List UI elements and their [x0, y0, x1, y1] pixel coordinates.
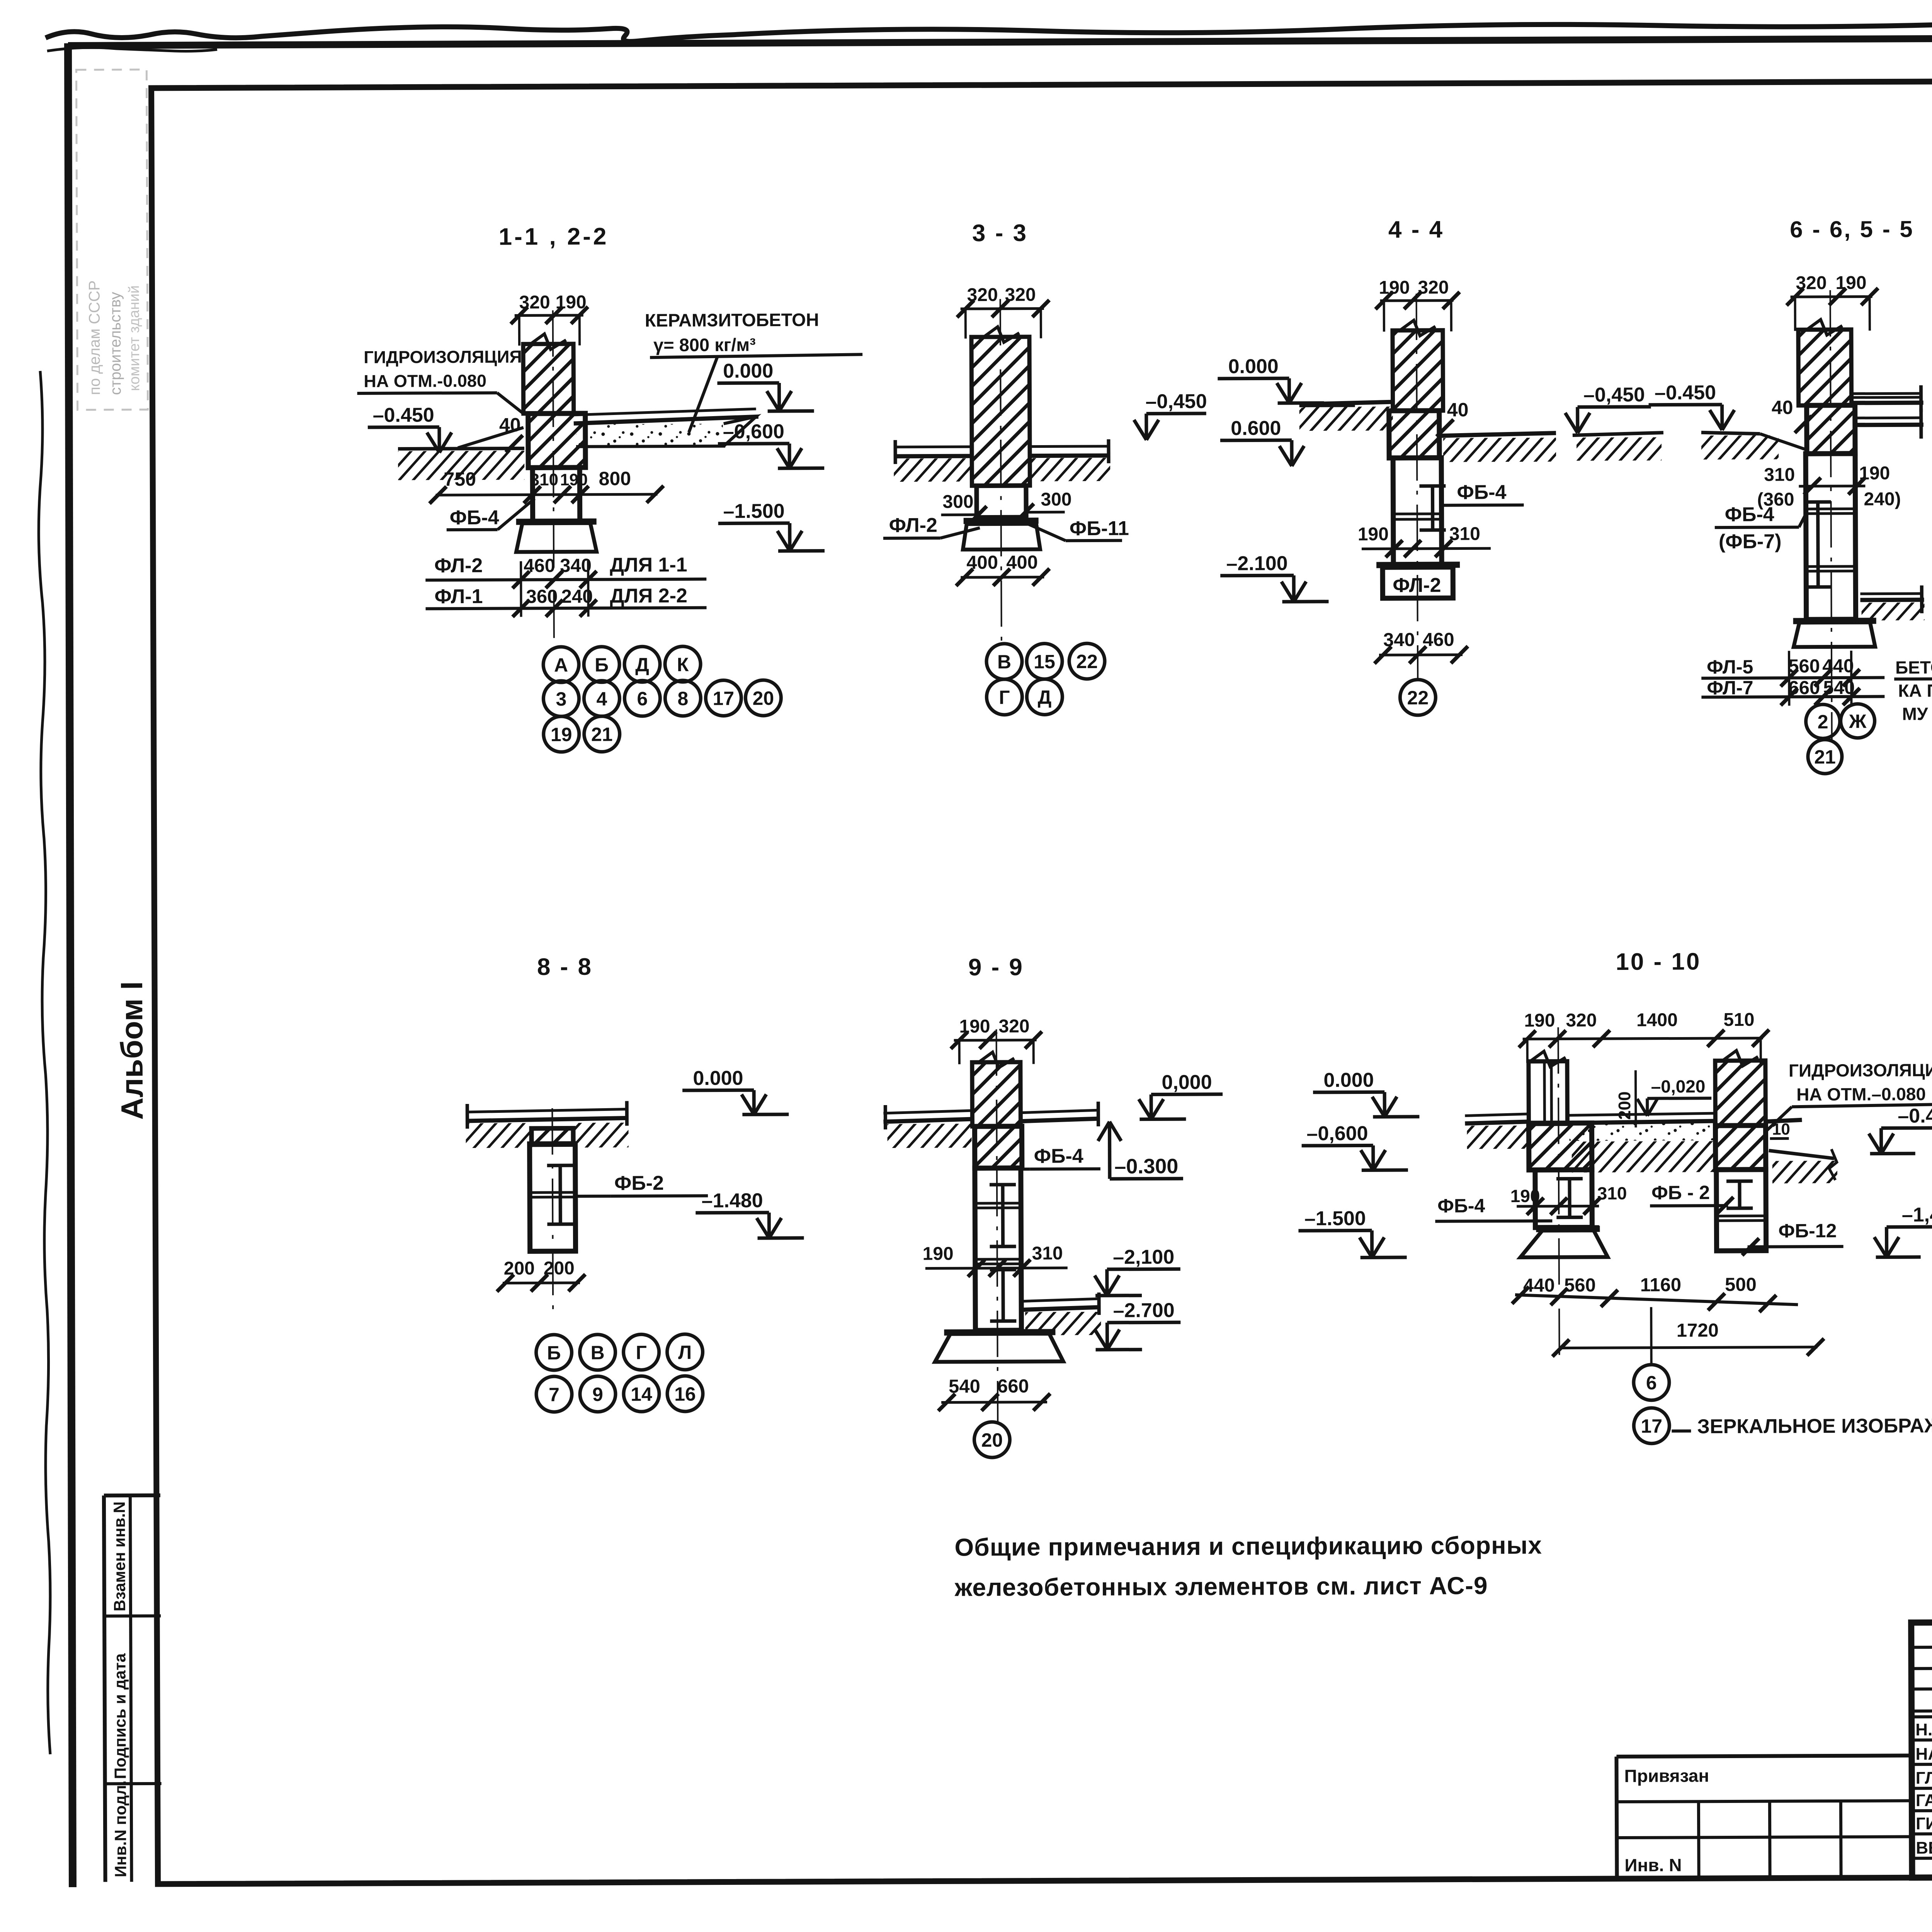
svg-text:по делам СССР: по делам СССР: [86, 281, 103, 395]
svg-text:–0.450: –0.450: [1898, 1105, 1932, 1128]
svg-text:9: 9: [592, 1384, 603, 1405]
svg-text:ФЛ-5: ФЛ-5: [1707, 656, 1753, 678]
lower floor slab right: [1021, 1299, 1100, 1301]
svg-text:0.000: 0.000: [1323, 1069, 1374, 1091]
FL-2 block: [1383, 567, 1453, 599]
faint approval stamp top-left: [76, 70, 148, 410]
svg-text:–0,020: –0,020: [1651, 1076, 1706, 1097]
svg-text:510: 510: [1723, 1010, 1754, 1030]
svg-text:–0,600: –0,600: [1306, 1122, 1368, 1145]
svg-text:440: 440: [1523, 1275, 1555, 1296]
svg-text:ФБ-4: ФБ-4: [1725, 503, 1774, 526]
svg-text:19: 19: [551, 724, 572, 745]
svg-text:0.000: 0.000: [1228, 355, 1279, 378]
basement floor right -2.100: [1860, 592, 1922, 595]
foundation cap hatched: [528, 413, 586, 468]
svg-text:190: 190: [560, 471, 588, 489]
svg-text:4: 4: [596, 688, 607, 710]
svg-text:190: 190: [1379, 277, 1410, 298]
ground left: [1701, 432, 1760, 434]
svg-text:660: 660: [997, 1376, 1029, 1397]
floor slabs both sides: [883, 1111, 972, 1113]
svg-text:ФБ-4: ФБ-4: [1457, 481, 1506, 503]
svg-text:1160: 1160: [1640, 1274, 1682, 1295]
svg-text:3: 3: [556, 688, 566, 710]
svg-text:8: 8: [677, 688, 688, 709]
svg-text:22: 22: [1407, 687, 1429, 709]
block under wall: [976, 486, 1026, 517]
privyazan box: [1616, 1755, 1912, 1757]
svg-text:0.000: 0.000: [723, 360, 773, 382]
section 1-1,2-2: [357, 222, 864, 753]
svg-text:–0.450: –0.450: [1655, 381, 1716, 404]
axis circle 20: [745, 680, 781, 716]
svg-text:21: 21: [591, 724, 613, 745]
section 6-6,5-5: [1700, 215, 1932, 774]
floor slab right + ground lower: [1441, 433, 1556, 436]
svg-text:НА ОТМ.-0.080: НА ОТМ.-0.080: [364, 371, 486, 391]
axis circle 17 + mirror note: [1634, 1408, 1669, 1444]
axis circle А: [543, 647, 579, 682]
svg-text:ФЛ-2: ФЛ-2: [889, 514, 937, 536]
section 3-3: [882, 219, 1356, 715]
floor slab center: [1567, 1113, 1715, 1115]
floor slab far left: [1465, 1114, 1529, 1116]
svg-text:14: 14: [631, 1383, 652, 1405]
axis circle Б: [536, 1335, 571, 1370]
svg-text:6: 6: [1646, 1372, 1657, 1394]
section 10-10: [1298, 947, 1932, 1445]
svg-text:320: 320: [998, 1016, 1029, 1037]
axis circle 6: [624, 680, 660, 716]
svg-text:железобетонных элементов см.: железобетонных элементов см. лист АС-9: [954, 1571, 1488, 1601]
svg-text:–0,450: –0,450: [1583, 384, 1645, 406]
svg-text:ДЛЯ 2-2: ДЛЯ 2-2: [610, 585, 687, 607]
foundation blocks: [1393, 458, 1442, 566]
svg-text:17: 17: [1641, 1415, 1662, 1437]
axis circle Л: [667, 1334, 702, 1370]
svg-text:Инв. N: Инв. N: [1624, 1855, 1682, 1875]
heavy slab line: [964, 518, 1039, 524]
axis circle 20: [974, 1422, 1010, 1458]
axis circle Г: [986, 679, 1022, 715]
svg-text:ВЕД.ИНЖ.: ВЕД.ИНЖ.: [1916, 1838, 1932, 1857]
svg-text:0,000: 0,000: [1162, 1071, 1212, 1094]
svg-text:БЕТОННАЯ ПОДГОТОВ-: БЕТОННАЯ ПОДГОТОВ-: [1895, 656, 1932, 677]
footing: [935, 1333, 1063, 1362]
svg-text:ФБ-4: ФБ-4: [1437, 1195, 1485, 1216]
left footing: [1520, 1230, 1607, 1257]
svg-text:–2.700: –2.700: [1113, 1299, 1175, 1322]
floor slabs both sides: [894, 446, 972, 449]
brick wall above waterproofing: [523, 344, 574, 413]
svg-text:17: 17: [713, 687, 734, 709]
axis circle 17: [706, 680, 741, 716]
keramzit layer: [576, 424, 723, 447]
axis circle Г: [623, 1334, 659, 1370]
svg-text:10: 10: [1772, 1120, 1790, 1138]
axis circle 4: [584, 681, 619, 716]
axis circle 14: [624, 1376, 659, 1412]
svg-text:22: 22: [1076, 651, 1098, 672]
svg-text:7: 7: [549, 1384, 560, 1405]
svg-text:Н.КОНТР.: Н.КОНТР.: [1915, 1720, 1932, 1740]
svg-text:ЗЕРКАЛЬНОЕ ИЗОБРАЖЕНИЕ: ЗЕРКАЛЬНОЕ ИЗОБРАЖЕНИЕ: [1697, 1414, 1932, 1438]
svg-text:310: 310: [1032, 1243, 1063, 1264]
svg-text:ФЛ-2: ФЛ-2: [434, 554, 483, 577]
svg-text:4 - 4: 4 - 4: [1388, 216, 1444, 243]
svg-text:300: 300: [942, 492, 973, 512]
svg-text:В: В: [997, 651, 1011, 673]
footing trapezoid: [963, 524, 1040, 550]
svg-text:Л: Л: [678, 1342, 692, 1363]
svg-text:500: 500: [1725, 1274, 1757, 1295]
left wall (plain): [1529, 1061, 1568, 1124]
svg-text:ФЛ-2: ФЛ-2: [1393, 574, 1441, 597]
axis circle Б: [584, 647, 619, 682]
svg-text:(ФБ-7): (ФБ-7): [1719, 530, 1782, 553]
centerline axis A: [553, 310, 554, 645]
svg-text:ГАП: ГАП: [1916, 1791, 1932, 1810]
ground at 0.000 mark: [1299, 403, 1355, 408]
svg-text:310: 310: [1449, 524, 1480, 544]
svg-text:НАЧ.АПМ,1: НАЧ.АПМ,1: [1915, 1744, 1932, 1764]
svg-text:190: 190: [1510, 1186, 1540, 1206]
svg-text:1400: 1400: [1636, 1010, 1678, 1030]
floor slab right 0.000: [1853, 392, 1922, 395]
foundation block FB-4: [532, 468, 580, 522]
svg-text:ГИП: ГИП: [1916, 1814, 1932, 1833]
svg-text:320: 320: [1566, 1010, 1597, 1031]
axis circle 3: [543, 681, 579, 716]
svg-text:20: 20: [752, 687, 774, 709]
centerline: [1000, 299, 1002, 641]
svg-text:–0.450: –0.450: [373, 404, 434, 427]
svg-text:360: 360: [526, 586, 558, 607]
svg-text:190: 190: [1358, 524, 1389, 544]
svg-text:Г: Г: [636, 1342, 647, 1363]
svg-text:6: 6: [637, 688, 648, 709]
svg-text:340: 340: [560, 555, 592, 576]
brick wall: [972, 1062, 1021, 1126]
svg-text:15: 15: [1034, 651, 1055, 672]
foundation blocks: [1806, 454, 1856, 619]
axis circle В: [580, 1335, 615, 1370]
svg-text:20: 20: [981, 1429, 1003, 1451]
svg-text:Ж: Ж: [1849, 711, 1867, 732]
svg-text:190: 190: [923, 1243, 954, 1264]
floor slab left + ground: [1303, 402, 1393, 404]
svg-text:240): 240): [1864, 489, 1901, 509]
svg-text:В: В: [590, 1342, 604, 1364]
svg-text:21: 21: [1814, 746, 1836, 768]
svg-text:Подпись и дата: Подпись и дата: [111, 1653, 129, 1779]
axis circle 19: [544, 716, 579, 752]
svg-text:0.000: 0.000: [693, 1067, 743, 1089]
foundation blocks: [975, 1168, 1022, 1330]
floor slab right -0.800: [1855, 417, 1922, 420]
axis circles: [1806, 704, 1840, 738]
svg-text:40: 40: [1772, 396, 1793, 418]
svg-text:ГЛ.ИНЖ.М: ГЛ.ИНЖ.М: [1916, 1768, 1932, 1787]
axis circle К: [665, 646, 701, 682]
svg-text:ФБ-4: ФБ-4: [1034, 1145, 1083, 1167]
svg-text:1720: 1720: [1677, 1320, 1719, 1341]
svg-text:310: 310: [1597, 1183, 1627, 1203]
svg-text:190: 190: [1835, 273, 1866, 293]
section 9-9: [883, 953, 1224, 1458]
axis circle 21: [584, 716, 620, 752]
svg-text:2: 2: [1818, 711, 1828, 733]
svg-text:Инв.N подл.: Инв.N подл.: [111, 1781, 130, 1878]
floor slab right: [574, 409, 756, 415]
svg-text:Взамен инв.N: Взамен инв.N: [110, 1502, 129, 1612]
svg-text:ФЛ-7: ФЛ-7: [1707, 677, 1753, 699]
axis circle В: [986, 644, 1022, 679]
svg-text:КА ПО УПЛОТНЕННО-: КА ПО УПЛОТНЕННО-: [1898, 680, 1932, 701]
svg-text:Д: Д: [635, 654, 649, 675]
foundation block FB-2: [530, 1144, 576, 1251]
svg-text:КЕРАМЗИТОБЕТОН: КЕРАМЗИТОБЕТОН: [645, 310, 819, 331]
ground line left: [398, 448, 524, 449]
svg-text:–1.480: –1.480: [702, 1189, 763, 1212]
svg-text:–1.500: –1.500: [723, 500, 784, 523]
svg-text:40: 40: [1447, 399, 1469, 420]
svg-text:3 - 3: 3 - 3: [972, 220, 1028, 247]
svg-text:–2.100: –2.100: [1226, 552, 1287, 575]
right wall below: hatched cap + blocks: [1715, 1126, 1765, 1170]
svg-text:200: 200: [504, 1258, 535, 1279]
svg-text:6 - 6, 5 - 5: 6 - 6, 5 - 5: [1790, 216, 1914, 242]
floor slab: [466, 1109, 628, 1112]
axis circle 7: [536, 1376, 572, 1412]
svg-text:А: А: [554, 654, 568, 676]
right wall hatched: [1715, 1061, 1766, 1126]
section 8-8: [465, 953, 804, 1412]
svg-text:ФБ-2: ФБ-2: [614, 1172, 664, 1194]
svg-text:ФЛ-1: ФЛ-1: [434, 585, 483, 608]
svg-text:строительству: строительству: [107, 292, 124, 395]
svg-text:Альбом I: Альбом I: [114, 981, 149, 1120]
svg-text:1-1 , 2-2: 1-1 , 2-2: [498, 223, 609, 250]
svg-text:НА ОТМ.–0.080: НА ОТМ.–0.080: [1796, 1084, 1926, 1104]
svg-text:–0.300: –0.300: [1114, 1155, 1178, 1178]
brick wall: [1393, 330, 1443, 411]
svg-text:9 - 9: 9 - 9: [968, 954, 1024, 981]
outer border left: [68, 43, 73, 1887]
svg-text:ФБ - 2: ФБ - 2: [1651, 1182, 1710, 1204]
svg-text:310: 310: [1764, 464, 1795, 485]
axis circle Д: [1027, 679, 1062, 714]
title block: [1616, 1619, 1932, 1889]
svg-text:Привязан: Привязан: [1624, 1765, 1709, 1786]
svg-text:ГИДРОИЗОЛЯЦИЯ: ГИДРОИЗОЛЯЦИЯ: [1789, 1060, 1932, 1081]
svg-text:0.600: 0.600: [1231, 417, 1281, 439]
brick wall: [1798, 330, 1852, 406]
svg-text:ФБ-12: ФБ-12: [1778, 1220, 1837, 1242]
lower hatched part: [975, 1126, 1022, 1168]
axis circle 6: [1634, 1365, 1669, 1400]
svg-text:460: 460: [1423, 629, 1454, 650]
svg-text:ФБ-11: ФБ-11: [1070, 517, 1129, 540]
svg-text:ФБ-4: ФБ-4: [450, 507, 499, 529]
svg-text:Д: Д: [1037, 686, 1051, 708]
svg-text:ГИДРОИЗОЛЯЦИЯ: ГИДРОИЗОЛЯЦИЯ: [364, 347, 522, 367]
svg-text:560: 560: [1564, 1275, 1596, 1296]
svg-text:320: 320: [1418, 277, 1449, 298]
svg-text:ДЛЯ 1-1: ДЛЯ 1-1: [610, 554, 687, 577]
svg-text:К: К: [677, 654, 689, 675]
ground hatch: [894, 458, 972, 482]
svg-text:40: 40: [499, 414, 521, 435]
lower hatched part: [1807, 405, 1855, 454]
footing: [1794, 622, 1875, 647]
svg-text:–2,100: –2,100: [1113, 1246, 1174, 1269]
outer border top: [68, 36, 1932, 46]
svg-text:Общие примечания и спецификаци: Общие примечания и спецификацию сборных: [954, 1531, 1542, 1561]
lower hatched part: [1389, 411, 1439, 458]
footing slab FL: [516, 523, 597, 552]
svg-text:750: 750: [444, 468, 476, 490]
svg-text:Б: Б: [595, 654, 609, 676]
floor slab right short + ground slope: [1765, 1120, 1802, 1121]
svg-text:–0,450: –0,450: [1145, 390, 1207, 413]
axis circle 15: [1027, 643, 1062, 679]
svg-text:комитет зданий: комитет зданий: [126, 285, 143, 391]
brick wall: [971, 337, 1030, 486]
axis circle 22: [1400, 680, 1435, 715]
left margin service table: [104, 1493, 160, 1498]
svg-text:16: 16: [674, 1383, 696, 1405]
svg-text:γ= 800 кг/м³: γ= 800 кг/м³: [653, 334, 756, 355]
left wall below: hatched cap + block: [1529, 1123, 1592, 1170]
axis circle Д: [624, 646, 660, 682]
svg-text:–1.500: –1.500: [1304, 1207, 1366, 1230]
svg-text:Б: Б: [547, 1342, 561, 1364]
svg-text:300: 300: [1041, 489, 1071, 510]
torn paper top edge: [46, 16, 1932, 41]
axis circle 22: [1069, 643, 1105, 679]
svg-text:10 - 10: 10 - 10: [1616, 948, 1701, 975]
section 4-4: [1303, 215, 1736, 716]
wall cap hatched: [531, 1128, 573, 1145]
axis circle 8: [665, 680, 701, 716]
svg-text:–1,480: –1,480: [1902, 1204, 1932, 1226]
axis circle 9: [580, 1376, 616, 1412]
svg-text:МУ ОСНОВАНИЮ: МУ ОСНОВАНИЮ: [1902, 703, 1932, 724]
svg-text:Г: Г: [999, 687, 1010, 708]
svg-text:190: 190: [1524, 1010, 1555, 1031]
svg-text:800: 800: [599, 468, 631, 489]
torn paper left edge: [39, 371, 50, 1754]
axis circle 16: [667, 1376, 703, 1412]
svg-text:8 - 8: 8 - 8: [537, 954, 593, 981]
